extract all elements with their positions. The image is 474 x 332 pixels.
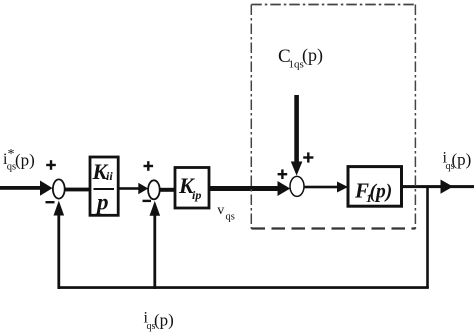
wire C1qs arrow down into S3 [291,95,303,176]
svg-text:*: * [8,147,15,162]
minus sign at S2 [143,200,152,202]
block Fi(p) [348,167,402,207]
wire input arrow [0,181,53,196]
svg-text:(p): (p) [452,150,472,169]
wire output with arrowhead [401,180,474,194]
wire feedback up-arrow into S2 [150,201,161,289]
plus sign at S2 [144,161,154,171]
wire Kii/p to S2 [118,183,148,195]
svg-text:v: v [217,203,224,218]
plus sign left of S3 [278,169,288,179]
wire feedback bottom horizontal [58,286,429,289]
node bottom label iqs(p) [144,310,174,332]
boundary dash-dot box left [250,5,252,229]
minus sign at S1 [46,201,55,203]
wire feedback vertical drop from output [426,187,429,288]
summing junction S2 [148,180,160,199]
svg-text:qs: qs [226,211,235,222]
label C1qs(p) [278,45,323,71]
label vqs [217,203,235,223]
wire feedback up-arrow into S1 [54,201,65,289]
node output label iqs(p) [443,150,472,173]
block Kip [175,168,209,209]
wire S2 to Kip [160,188,176,192]
boundary dash-dot box top [251,4,415,6]
wire Kip to S3, thick vqs line [209,181,290,196]
boundary dashed box bottom [252,227,416,229]
svg-text:(p): (p) [302,45,323,66]
node input label i*qs(p) [3,147,35,173]
plus sign right of S3 [303,152,313,162]
wire S3 to Fi block [304,182,348,193]
summing junction S3 [290,176,304,196]
svg-text:(p): (p) [154,311,174,330]
svg-text:(p): (p) [15,150,35,169]
wire S1 to Kii/p [65,188,91,192]
summing junction S1 [53,179,65,198]
plus sign at S1 [46,160,56,170]
block Kii/p [90,157,118,215]
svg-text:p: p [95,190,109,215]
boundary dash-dot box right [414,5,416,229]
svg-text:ii: ii [106,169,113,183]
svg-text:ip: ip [192,188,201,202]
svg-text:(p): (p) [370,182,393,203]
